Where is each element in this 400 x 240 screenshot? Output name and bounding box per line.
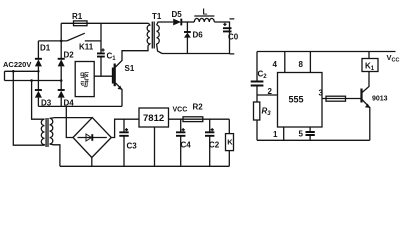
svg-text:8: 8 [299, 60, 304, 69]
svg-text:VCC: VCC [173, 107, 188, 114]
svg-text:3: 3 [319, 89, 324, 98]
svg-text:D1: D1 [40, 44, 51, 53]
svg-text:2: 2 [268, 87, 273, 96]
svg-text:D6: D6 [193, 31, 204, 40]
svg-text:D2: D2 [64, 51, 75, 60]
svg-text:C3: C3 [127, 142, 138, 151]
svg-text:1: 1 [273, 130, 278, 139]
svg-text:7812: 7812 [143, 113, 164, 124]
svg-text:S1: S1 [125, 64, 135, 73]
svg-text:D4: D4 [64, 99, 75, 108]
svg-text:T1: T1 [152, 12, 162, 21]
svg-text:C2: C2 [209, 141, 220, 150]
svg-text:C0: C0 [228, 33, 239, 42]
svg-text:C4: C4 [181, 141, 192, 150]
svg-text:D5: D5 [172, 10, 183, 19]
svg-text:L: L [203, 8, 208, 17]
svg-text:9013: 9013 [372, 96, 388, 103]
svg-text:AC220V: AC220V [3, 60, 31, 69]
svg-text:D3: D3 [41, 99, 52, 108]
svg-text:K: K [227, 138, 233, 147]
svg-text:555: 555 [289, 95, 304, 105]
svg-text:K11: K11 [79, 43, 94, 52]
svg-text:5: 5 [299, 130, 304, 139]
svg-text:R2: R2 [193, 103, 204, 112]
svg-text:R1: R1 [72, 12, 83, 21]
svg-text:4: 4 [273, 60, 278, 69]
